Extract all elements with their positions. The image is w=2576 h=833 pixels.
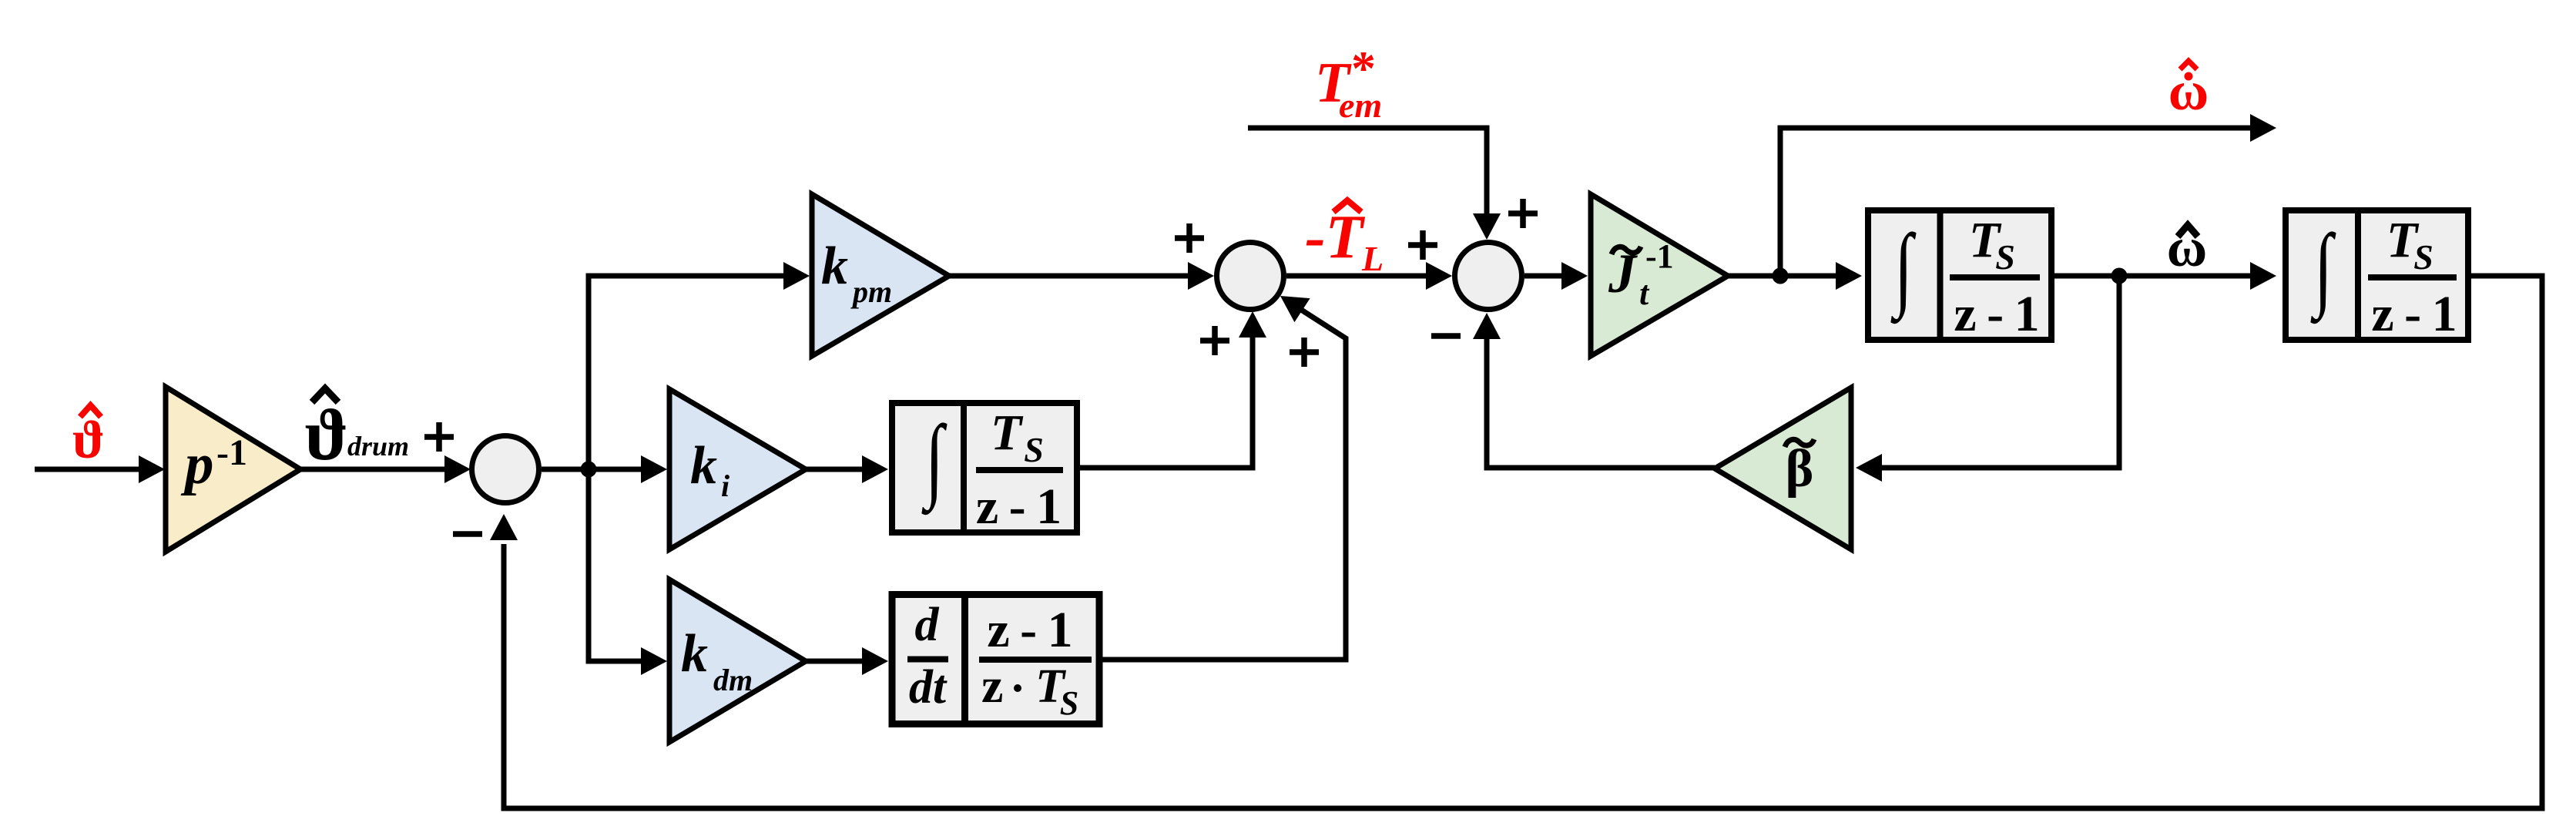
wire Tem down into S2 bbox=[1248, 128, 1501, 240]
junction dot C bbox=[2111, 268, 2128, 284]
plus sign ki into S1 bbox=[1200, 326, 1229, 355]
svg-text:i: i bbox=[721, 469, 730, 503]
wire S2 to Jt bbox=[1524, 262, 1588, 290]
gain block beta bbox=[1715, 388, 1851, 549]
svg-text:t: t bbox=[1639, 274, 1650, 312]
svg-text:∫: ∫ bbox=[1890, 214, 1917, 324]
svg-text:k: k bbox=[681, 624, 708, 684]
svg-text:p: p bbox=[180, 432, 214, 496]
node -TL label bbox=[1305, 200, 1384, 278]
svg-text:z - 1: z - 1 bbox=[987, 602, 1075, 658]
svg-text:ϑ: ϑ bbox=[72, 411, 105, 470]
wire S1 to S2 bbox=[1286, 262, 1452, 290]
svg-text:k: k bbox=[690, 436, 717, 495]
svg-text:S: S bbox=[1060, 684, 1078, 722]
minus sign at sum1 bbox=[453, 531, 482, 537]
node omega-hat-dot label bbox=[2168, 60, 2209, 122]
derivative box ddt bbox=[892, 595, 1099, 724]
svg-text:S: S bbox=[1995, 237, 2015, 277]
plus sign at sum1 bbox=[424, 422, 454, 452]
node omega-hat label bbox=[2167, 217, 2208, 278]
wire omega-dot output bbox=[1780, 114, 2276, 276]
summing junction S1 bbox=[1217, 243, 1284, 310]
node theta-hat-drum label bbox=[305, 388, 410, 475]
wire ddt diagonal to S1 bbox=[1102, 296, 1346, 660]
wire kpm to sum S1 bbox=[949, 262, 1214, 290]
wire input arrow bbox=[35, 455, 165, 483]
svg-text:T: T bbox=[991, 405, 1024, 461]
wire outer feedback loop bbox=[490, 276, 2542, 808]
svg-text:∫: ∫ bbox=[921, 405, 948, 515]
svg-text:drum: drum bbox=[347, 431, 409, 462]
integrator box3 bbox=[2286, 210, 2468, 342]
svg-text:β: β bbox=[1786, 439, 1814, 499]
svg-text:em: em bbox=[1339, 86, 1382, 125]
svg-text:z - 1: z - 1 bbox=[1954, 286, 2042, 342]
gain block ki bbox=[669, 389, 806, 549]
integrator box2 bbox=[1868, 210, 2051, 342]
svg-text:dt: dt bbox=[909, 661, 948, 714]
wire box1 up to S1 bbox=[1077, 311, 1266, 468]
svg-text:d: d bbox=[915, 599, 940, 651]
junction dot A bbox=[581, 462, 597, 478]
node Tem label bbox=[1315, 41, 1382, 125]
svg-text:S: S bbox=[2413, 237, 2433, 277]
svg-text:ϑ: ϑ bbox=[305, 394, 349, 475]
gain block kpm bbox=[812, 194, 949, 356]
node theta-hat input label bbox=[72, 405, 105, 470]
wire Jt to box2 with junction bbox=[1728, 262, 1862, 290]
wire up to kpm bbox=[589, 262, 810, 469]
junction dot B bbox=[1773, 268, 1789, 284]
svg-text:-1: -1 bbox=[1645, 237, 1674, 275]
integrator box1 bbox=[892, 403, 1077, 535]
plus sign kdm into S1 bbox=[1290, 338, 1319, 367]
svg-text:-1: -1 bbox=[216, 432, 247, 473]
wire p to sum1 bbox=[300, 455, 471, 483]
minus sign beta into S2 bbox=[1431, 333, 1461, 339]
gain block kdm bbox=[669, 579, 806, 742]
summing junction S2 bbox=[1455, 243, 1522, 310]
plus sign kpm into S1 bbox=[1175, 223, 1204, 253]
wire kdm to ddt box bbox=[806, 647, 888, 675]
svg-text:z - 1: z - 1 bbox=[976, 479, 1065, 535]
svg-text:L: L bbox=[1361, 239, 1384, 278]
gain block p^-1 bbox=[166, 387, 300, 552]
svg-text:S: S bbox=[1024, 430, 1044, 469]
svg-text:k: k bbox=[821, 237, 848, 296]
svg-text:ω: ω bbox=[2168, 60, 2209, 122]
svg-text:∫: ∫ bbox=[2310, 214, 2336, 324]
wire omega down to beta bbox=[1856, 276, 2119, 482]
svg-text:z - 1: z - 1 bbox=[2371, 286, 2460, 342]
wire ki to integrator box1 bbox=[806, 455, 888, 483]
plus sign Tem into S2 bbox=[1508, 199, 1538, 228]
summing junction S0 bbox=[472, 436, 539, 503]
gain block Jt inverse bbox=[1591, 194, 1728, 356]
svg-text:dm: dm bbox=[713, 663, 753, 697]
wire box2 to box3 with junction bbox=[2054, 262, 2276, 290]
wire S0 to ki with junction bbox=[542, 455, 667, 483]
wire beta to S2 bbox=[1473, 313, 1715, 468]
wire down to kdm bbox=[589, 469, 667, 675]
svg-text:pm: pm bbox=[850, 274, 892, 309]
plus sign S1 into S2 bbox=[1408, 230, 1437, 260]
svg-text:z: z bbox=[981, 658, 1003, 713]
